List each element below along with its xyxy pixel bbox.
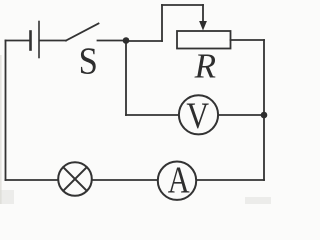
svg-text:A: A [168,160,190,202]
wire right vertical [263,40,265,180]
wire lamp to ammeter [93,179,158,181]
wire ammeter to bottom right [197,179,264,181]
wire top horizontal to slider [162,4,203,6]
wire riser up [161,5,163,41]
wire voltmeter right [219,114,265,116]
wire node down to voltmeter branch [125,41,127,115]
wire top-left to battery [6,40,30,42]
battery cell [31,22,40,58]
scan smudge left edge [0,55,271,204]
svg-text:V: V [186,97,209,137]
wire bottom left to lamp [6,179,58,181]
svg-text:R: R [194,47,216,86]
rheostat slider arrow shaft [202,5,204,23]
wire node to rheostat riser [126,40,162,42]
wire rheostat right to corner [231,39,265,41]
lamp circle [58,162,92,196]
rheostat R body [177,31,231,49]
node junction dot right [261,112,268,119]
ammeter A circle [158,162,196,200]
svg-text:S: S [79,40,98,82]
switch S blade [66,24,99,41]
node junction dot at switch [123,37,130,44]
voltmeter U-V circle [179,95,218,134]
lamp X filament [63,167,87,191]
rheostat slider arrowhead [199,21,207,31]
wire battery to switch [40,40,66,42]
wire left vertical [5,41,7,181]
wire switch to node [98,40,127,42]
wire voltmeter left [126,114,179,116]
